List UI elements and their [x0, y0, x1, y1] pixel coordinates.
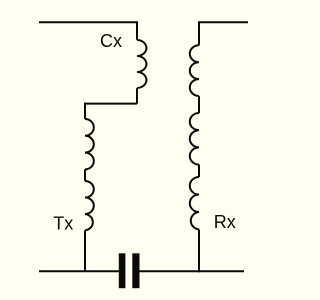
wire bottom-right horizontal — [140, 270, 245, 272]
wire Tx top lead — [84, 103, 86, 119]
wire Rx link 2 — [198, 165, 200, 177]
wire Tx bottom lead — [84, 230, 86, 271]
capacitor left plate — [119, 253, 126, 288]
wire Rx link 1 — [198, 96, 200, 113]
wire Cx bottom lead — [136, 88, 138, 104]
svg-text:Tx: Tx — [53, 214, 73, 234]
coil Rx top group (3 humps bulging left) — [190, 45, 199, 96]
coil Tx lower group (3 humps bulging right) — [85, 181, 94, 230]
coil Rx middle group (3 humps bulging left) — [190, 113, 199, 165]
wire top-left horizontal — [39, 21, 137, 23]
wire Rx bottom lead — [198, 229, 200, 272]
wire step horizontal — [85, 103, 137, 105]
capacitor right plate — [132, 253, 139, 288]
wire Tx mid link — [84, 169, 86, 181]
svg-text:Rx: Rx — [214, 212, 236, 232]
coil Rx bottom group (3 humps bulging left) — [190, 177, 199, 229]
coil Tx upper group (3 humps bulging right) — [85, 119, 94, 169]
coil Cx (3 humps bulging right) — [137, 40, 146, 88]
wire Cx top lead — [136, 21, 138, 40]
svg-text:Cx: Cx — [100, 31, 122, 51]
wire Rx top lead — [198, 21, 200, 45]
wire top-right horizontal — [199, 21, 248, 23]
wire bottom-left horizontal — [39, 270, 119, 272]
